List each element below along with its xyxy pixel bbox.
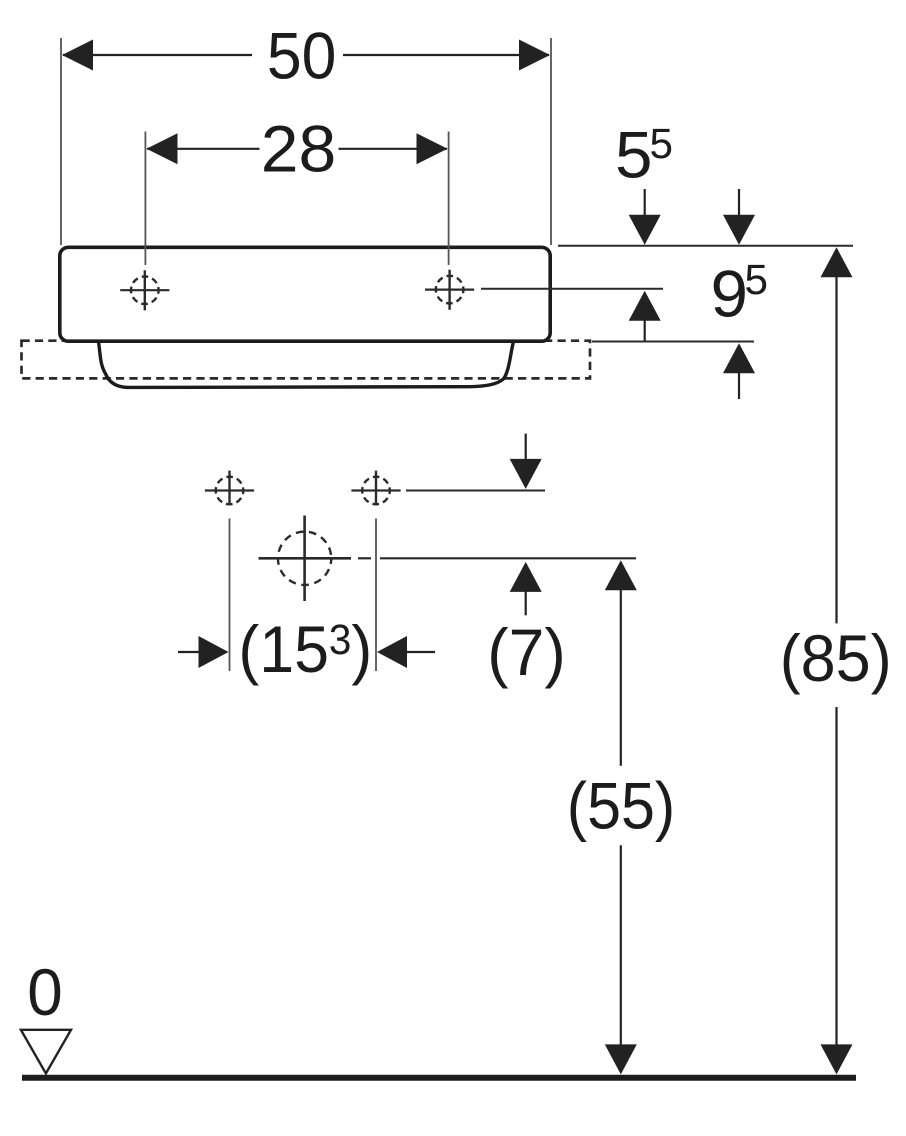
svg-text:50: 50 (267, 18, 337, 92)
svg-text:5: 5 (650, 121, 674, 168)
mid crosshair right (fixing hole) (351, 471, 400, 506)
dimension 50: dimension line and arrows (62, 40, 550, 71)
drain crosshair (large, dashed circle) (259, 516, 352, 602)
dim 9.5 up arrow (723, 343, 755, 399)
svg-text:(153): (153) (238, 613, 372, 687)
dim (15^3) right arrow (pointing left) (377, 636, 435, 668)
drain level reference line (358, 557, 636, 559)
dimension 50: extension line left (60, 38, 62, 245)
dim (15^3) extension line right (375, 519, 377, 672)
svg-text:(55): (55) (567, 769, 676, 843)
dimension 50: label (267, 18, 337, 92)
mid crosshair left (fixing hole) (205, 471, 254, 506)
dim (15^3) extension line left (229, 519, 231, 672)
datum zero label (27, 955, 63, 1029)
label (55) (567, 769, 676, 843)
svg-text:0: 0 (27, 955, 63, 1029)
tap hole right crosshair (425, 270, 474, 310)
svg-text:(7): (7) (487, 615, 566, 689)
datum triangle symbol (21, 1030, 71, 1074)
dimension 28: dimension line and arrows (147, 133, 448, 164)
svg-text:5: 5 (745, 257, 769, 304)
dim 5.5 up arrow (629, 291, 661, 342)
tap hole left crosshair (120, 270, 169, 310)
dim (85) vertical line with arrows (821, 247, 853, 1074)
floor datum line (22, 1075, 856, 1081)
svg-text:5: 5 (615, 118, 653, 192)
dashed installation box (22, 341, 591, 379)
basin top reference line (right) (558, 245, 853, 247)
dim 5.5 down arrow 1 (629, 189, 661, 245)
label (15^3) (238, 613, 372, 687)
dimension 28: extension line right (448, 132, 450, 266)
dim 5.5 down arrow 2 (723, 189, 755, 245)
label (7) (487, 615, 566, 689)
dimension 28: extension line left (144, 132, 146, 266)
dimension 28: label (261, 111, 337, 185)
label 5^5 (615, 118, 673, 192)
leader line from right fixing hole (406, 490, 545, 492)
label 9^5 (711, 256, 769, 330)
fixing level down arrow (510, 434, 542, 489)
dim (7) up arrow (510, 562, 542, 615)
leader line from right tap hole (481, 288, 663, 290)
svg-text:(85): (85) (780, 621, 892, 695)
dim (55) vertical line with arrows (605, 560, 637, 1074)
label (85) (780, 621, 892, 695)
svg-text:28: 28 (261, 111, 337, 185)
siphon trap outline (99, 342, 514, 388)
shelf level reference line (right of dashed box) (592, 341, 754, 343)
basin outline (60, 247, 550, 341)
dimension 50: extension line right (550, 38, 552, 245)
svg-text:9: 9 (711, 256, 749, 330)
dim (15^3) left arrow (pointing right) (178, 636, 229, 668)
